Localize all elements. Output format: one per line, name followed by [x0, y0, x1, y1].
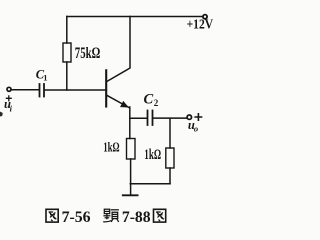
svg-text:+12V: +12V — [187, 18, 214, 33]
svg-text:7-56: 7-56 — [62, 209, 91, 226]
svg-text:i: i — [10, 103, 13, 113]
svg-text:75kΩ: 75kΩ — [75, 45, 101, 62]
svg-text:1: 1 — [43, 72, 47, 82]
svg-text:1kΩ: 1kΩ — [103, 140, 119, 155]
svg-text:2: 2 — [154, 98, 159, 108]
svg-text:C: C — [144, 92, 154, 108]
svg-text:1kΩ: 1kΩ — [144, 147, 161, 163]
svg-text:7-88: 7-88 — [122, 209, 151, 226]
svg-text:o: o — [194, 124, 198, 134]
